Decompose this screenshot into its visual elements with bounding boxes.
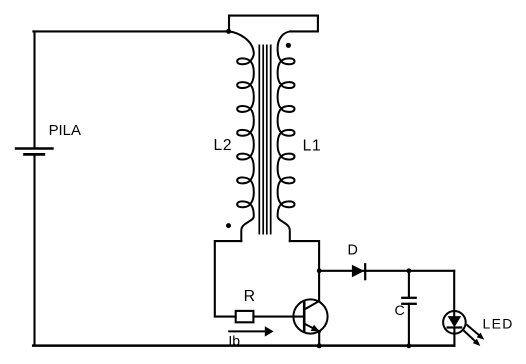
svg-text:PILA: PILA bbox=[49, 123, 81, 139]
svg-text:LED: LED bbox=[483, 315, 514, 331]
svg-text:D: D bbox=[348, 242, 358, 258]
svg-text:R: R bbox=[244, 288, 255, 305]
svg-text:L2: L2 bbox=[214, 137, 233, 154]
svg-text:L1: L1 bbox=[303, 138, 322, 155]
svg-text:Ib: Ib bbox=[228, 333, 240, 349]
svg-text:C: C bbox=[395, 303, 405, 319]
